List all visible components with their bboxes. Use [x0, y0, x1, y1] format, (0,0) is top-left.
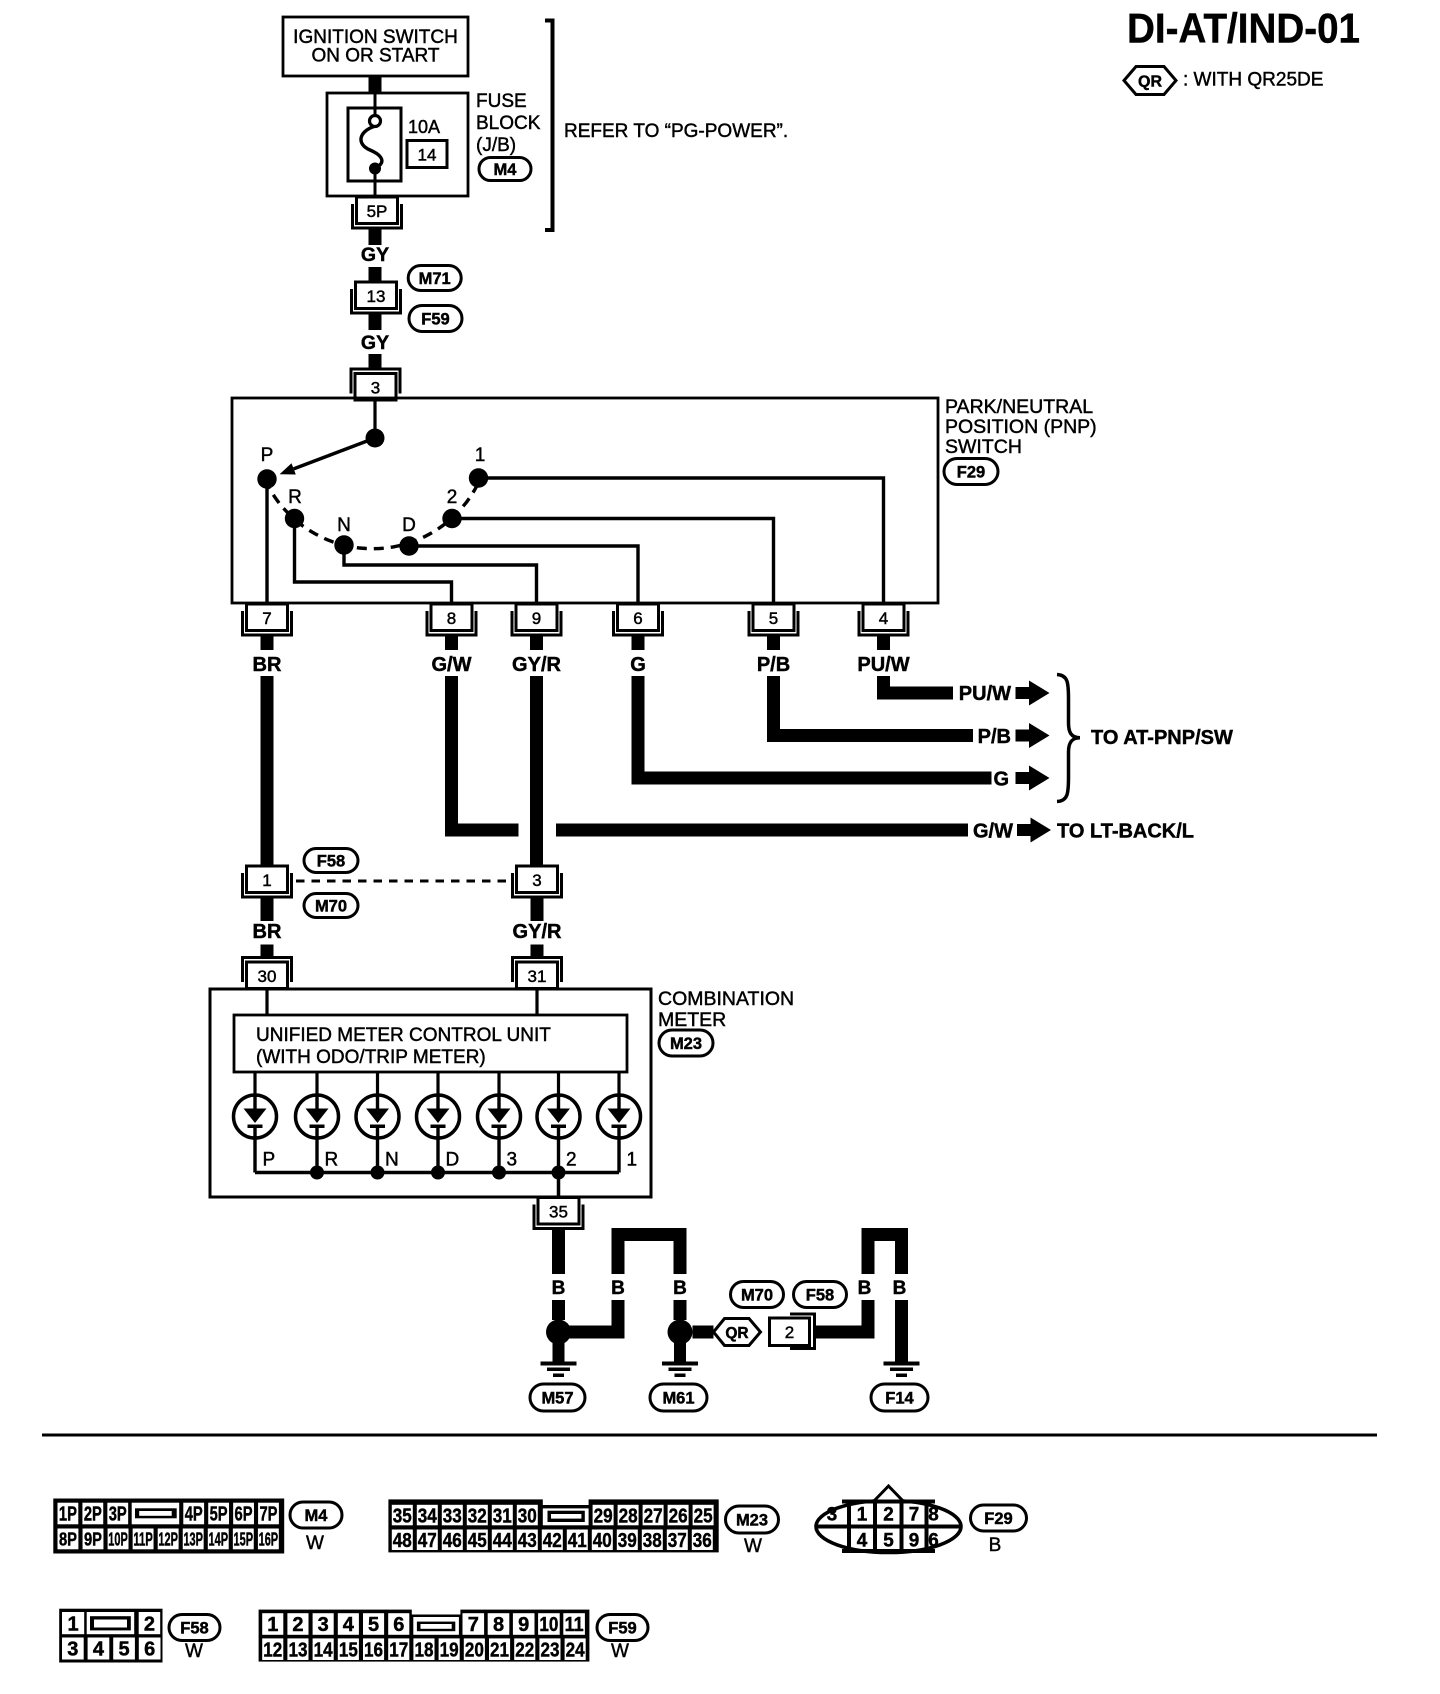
- svg-text:P: P: [261, 445, 274, 466]
- label PU/W branch: [959, 683, 1011, 705]
- wire color label PU/W: [857, 654, 909, 676]
- wire color GY upper: [361, 244, 389, 266]
- svg-text:17: 17: [389, 1639, 408, 1661]
- svg-text:8: 8: [493, 1614, 504, 1636]
- color B for F29: [989, 1535, 1002, 1556]
- svg-text:4: 4: [93, 1639, 105, 1661]
- svg-text:F58: F58: [180, 1619, 208, 1637]
- svg-text:W: W: [744, 1536, 762, 1557]
- combination meter pin 31: [513, 958, 562, 989]
- svg-text:13: 13: [288, 1639, 307, 1661]
- svg-text:1: 1: [627, 1150, 638, 1171]
- svg-text:18: 18: [414, 1639, 433, 1661]
- svg-text:35: 35: [549, 1203, 568, 1222]
- svg-text:9: 9: [909, 1530, 920, 1552]
- svg-text:: WITH QR25DE: : WITH QR25DE: [1183, 70, 1323, 91]
- svg-text:6P: 6P: [235, 1504, 253, 1526]
- wire P/B vertical and branch: [767, 676, 973, 742]
- svg-text:1: 1: [68, 1613, 79, 1635]
- ground node M57 junction: [546, 1320, 571, 1345]
- ground loop 1 left leg lower: [612, 1300, 625, 1339]
- svg-text:GY/R: GY/R: [513, 921, 562, 943]
- svg-text:FUSE: FUSE: [476, 91, 527, 112]
- separator line: [42, 1434, 1377, 1437]
- bus junction at 2: [552, 1166, 566, 1180]
- svg-text:6: 6: [928, 1530, 939, 1552]
- svg-text:M71: M71: [419, 270, 451, 288]
- wire pin30 to control unit: [265, 988, 268, 1015]
- oval F58 bottom: [169, 1615, 220, 1641]
- svg-text:M57: M57: [541, 1389, 573, 1407]
- svg-text:30: 30: [258, 967, 277, 986]
- svg-text:19: 19: [440, 1639, 459, 1661]
- svg-text:UNIFIED METER CONTROL UNIT: UNIFIED METER CONTROL UNIT: [256, 1025, 551, 1046]
- contact P: [257, 445, 276, 489]
- ground node M61 junction: [668, 1320, 693, 1345]
- svg-text:P: P: [263, 1150, 276, 1171]
- svg-text:W: W: [185, 1641, 203, 1662]
- svg-text:F58: F58: [317, 852, 345, 870]
- svg-text:4: 4: [343, 1614, 355, 1636]
- svg-text:6: 6: [144, 1639, 155, 1661]
- bracket for fuse block note: [545, 21, 553, 231]
- ground loop 2 left leg lower: [862, 1300, 875, 1339]
- oval M23: [659, 1030, 713, 1056]
- svg-text:1P: 1P: [59, 1504, 77, 1526]
- wire color B label 1: [552, 1278, 566, 1299]
- svg-text:F14: F14: [885, 1389, 914, 1407]
- dashed arc of selector positions: [265, 479, 480, 549]
- svg-text:12P: 12P: [158, 1529, 178, 1550]
- ground symbol M57: [541, 1343, 577, 1377]
- svg-text:34: 34: [418, 1505, 438, 1527]
- ground loop 2 right leg upper: [895, 1241, 908, 1274]
- svg-text:15P: 15P: [234, 1529, 254, 1550]
- wire from connector 3 to rotor: [373, 400, 376, 438]
- color W for M4: [306, 1533, 324, 1554]
- ground loop 2 left leg upper: [862, 1241, 875, 1274]
- arrow G: [1016, 766, 1050, 791]
- indicator LED P: [234, 1072, 277, 1173]
- svg-text:M70: M70: [741, 1286, 773, 1304]
- svg-text:W: W: [611, 1641, 629, 1662]
- connector 2 (M70/F58 ground junction): [770, 1314, 815, 1349]
- contact 1: [469, 445, 488, 488]
- wire color B label 4: [858, 1278, 872, 1299]
- svg-text:GY/R: GY/R: [512, 654, 561, 676]
- wire below 5P: [369, 228, 382, 245]
- svg-text:23: 23: [540, 1639, 559, 1661]
- svg-text:2: 2: [292, 1614, 303, 1636]
- svg-text:G: G: [993, 769, 1009, 791]
- oval F29 bottom: [971, 1505, 1027, 1531]
- svg-text:13P: 13P: [183, 1529, 203, 1550]
- svg-text:27: 27: [644, 1505, 663, 1527]
- svg-text:F29: F29: [984, 1510, 1012, 1528]
- indicator LED 3: [478, 1072, 521, 1173]
- svg-text:4: 4: [857, 1530, 868, 1552]
- wire from ignition switch to fuse block: [369, 76, 382, 94]
- svg-text:38: 38: [643, 1530, 662, 1552]
- wire bus to pin 35: [557, 1173, 561, 1199]
- svg-text:GY: GY: [361, 332, 389, 354]
- svg-text:37: 37: [668, 1530, 687, 1552]
- contact R: [285, 487, 304, 528]
- dashed link between connectors 1 and 3: [296, 880, 511, 883]
- wire into connector 13: [369, 267, 382, 283]
- wire color label BR: [253, 654, 282, 676]
- svg-text:2: 2: [883, 1504, 894, 1526]
- ground loop 1 right leg lower: [674, 1300, 687, 1320]
- wire BR into pin 30: [261, 945, 274, 959]
- svg-text:42: 42: [543, 1530, 562, 1552]
- svg-text:39: 39: [618, 1530, 637, 1552]
- ground loop 1 top: [612, 1228, 687, 1241]
- svg-text:PU/W: PU/W: [857, 654, 909, 676]
- oval M4 bottom: [290, 1502, 342, 1528]
- arrow PU/W: [1016, 681, 1050, 706]
- svg-text:F58: F58: [806, 1286, 834, 1304]
- svg-text:BLOCK: BLOCK: [476, 113, 541, 134]
- svg-text:16: 16: [364, 1639, 383, 1661]
- svg-text:2P: 2P: [84, 1504, 102, 1526]
- svg-text:1: 1: [475, 445, 486, 466]
- svg-text:SWITCH: SWITCH: [945, 436, 1022, 458]
- label P/B branch: [978, 726, 1011, 748]
- rotor pivot node: [366, 429, 385, 448]
- svg-text:G: G: [630, 654, 646, 676]
- svg-text:M4: M4: [494, 161, 518, 179]
- wire BR vertical: [261, 676, 274, 866]
- label TO LT-BACK/L: [1057, 821, 1194, 843]
- color W for F58: [185, 1641, 203, 1662]
- oval F59: [409, 306, 462, 332]
- svg-text:D: D: [446, 1150, 460, 1171]
- svg-text:35: 35: [393, 1505, 412, 1527]
- svg-text:16P: 16P: [259, 1529, 279, 1550]
- unified meter control unit box: [234, 1015, 627, 1072]
- PNP switch pin 9: [512, 604, 561, 650]
- svg-text:9: 9: [518, 1614, 529, 1636]
- svg-text:POSITION (PNP): POSITION (PNP): [945, 416, 1097, 438]
- svg-text:R: R: [288, 487, 302, 508]
- svg-text:REFER TO “PG-POWER”.: REFER TO “PG-POWER”.: [564, 121, 788, 142]
- combination meter pin 35: [534, 1198, 583, 1242]
- wire M57 node to loop: [566, 1326, 625, 1339]
- svg-text:12: 12: [263, 1639, 282, 1661]
- PNP switch pin 5: [749, 604, 798, 650]
- svg-text:M23: M23: [670, 1035, 702, 1053]
- contact D: [399, 515, 418, 556]
- svg-text:14: 14: [418, 146, 437, 165]
- svg-text:3: 3: [532, 871, 541, 890]
- svg-text:TO AT-PNP/SW: TO AT-PNP/SW: [1091, 727, 1233, 749]
- wire color label P/B: [757, 654, 790, 676]
- wire into connector 3: [369, 354, 382, 369]
- brace TO AT-PNP/SW: [1057, 675, 1080, 802]
- ground loop 1 right leg upper: [674, 1241, 687, 1274]
- label G branch: [993, 769, 1009, 791]
- connector M4 oval: [479, 158, 531, 181]
- fuse 10A #14: [348, 94, 401, 196]
- bus junction at N: [371, 1166, 385, 1180]
- wire color GY lower: [361, 332, 389, 354]
- arrow P/B: [1016, 723, 1050, 748]
- fuse value 10A: [408, 117, 440, 137]
- svg-text:10A: 10A: [408, 117, 440, 137]
- svg-text:9P: 9P: [84, 1529, 102, 1550]
- oval M71: [408, 266, 461, 291]
- svg-text:G/W: G/W: [973, 821, 1013, 843]
- ignition switch power source box: [283, 17, 468, 76]
- svg-text:44: 44: [493, 1530, 513, 1552]
- oval M70 ground: [731, 1282, 784, 1308]
- wire GY/R below connector 3: [531, 897, 544, 921]
- svg-text:15: 15: [339, 1639, 358, 1661]
- wire BR below connector 1: [261, 897, 274, 921]
- svg-text:9: 9: [532, 609, 541, 628]
- svg-text:3: 3: [67, 1639, 78, 1661]
- svg-text:BR: BR: [253, 654, 282, 676]
- svg-text:BR: BR: [253, 921, 282, 943]
- label G/W branch: [973, 821, 1013, 843]
- svg-text:B: B: [858, 1278, 872, 1299]
- svg-text:1: 1: [857, 1504, 868, 1526]
- svg-text:36: 36: [693, 1530, 712, 1552]
- wire P to pin 7: [265, 479, 268, 602]
- wire B from pin 35: [552, 1240, 565, 1274]
- svg-text:10: 10: [539, 1614, 558, 1636]
- svg-text:GY: GY: [361, 244, 389, 266]
- svg-text:47: 47: [418, 1530, 437, 1552]
- svg-text:P/B: P/B: [978, 726, 1011, 748]
- PNP switch pin 6: [614, 604, 663, 650]
- svg-text:26: 26: [669, 1505, 688, 1527]
- svg-text:F59: F59: [608, 1619, 636, 1637]
- svg-text:3: 3: [507, 1150, 518, 1171]
- svg-text:32: 32: [468, 1505, 487, 1527]
- label COMBINATION METER: [658, 988, 794, 1031]
- svg-text:2: 2: [566, 1150, 577, 1171]
- svg-text:5: 5: [368, 1614, 379, 1636]
- svg-text:43: 43: [518, 1530, 537, 1552]
- PNP switch pin 8: [427, 604, 476, 650]
- indicator LED N: [356, 1072, 399, 1173]
- color W for M23: [744, 1536, 762, 1557]
- oval F59 bottom: [597, 1615, 648, 1641]
- combination meter box: [210, 989, 651, 1197]
- svg-text:D: D: [402, 515, 416, 536]
- connector face F29: [816, 1486, 961, 1553]
- connector face F59: [259, 1608, 590, 1662]
- label FUSE BLOCK (J/B): [476, 91, 541, 156]
- svg-text:B: B: [893, 1278, 907, 1299]
- svg-text:4P: 4P: [185, 1504, 203, 1526]
- indicator LED D: [417, 1072, 460, 1173]
- svg-text:28: 28: [619, 1505, 638, 1527]
- wire 1 to pin 4: [479, 478, 884, 602]
- svg-text:29: 29: [594, 1505, 613, 1527]
- svg-text:40: 40: [593, 1530, 612, 1552]
- arrow G/W: [1017, 818, 1051, 843]
- PNP switch pin 7: [243, 604, 292, 650]
- wire G vertical and branch: [632, 676, 992, 785]
- LED common bus: [255, 1171, 619, 1175]
- svg-text:5P: 5P: [210, 1504, 228, 1526]
- svg-text:3P: 3P: [109, 1504, 127, 1526]
- svg-text:21: 21: [490, 1639, 509, 1661]
- wire N to pin 9: [344, 545, 537, 602]
- wire pin31 to control unit: [535, 988, 538, 1015]
- oval M61: [650, 1384, 707, 1411]
- fuse number 14 box: [407, 141, 447, 168]
- svg-text:QR: QR: [1138, 74, 1162, 91]
- svg-text:N: N: [337, 515, 351, 536]
- svg-text:48: 48: [393, 1530, 412, 1552]
- svg-text:11: 11: [565, 1614, 584, 1636]
- svg-text:2: 2: [447, 487, 458, 508]
- connector face M4: [53, 1499, 284, 1554]
- wire R to pin 8: [295, 519, 452, 603]
- svg-text:P/B: P/B: [757, 654, 790, 676]
- wire color B label 3: [673, 1278, 687, 1299]
- svg-text:PU/W: PU/W: [959, 683, 1011, 705]
- ground symbol M61: [662, 1343, 698, 1377]
- contact 2: [442, 487, 461, 528]
- wire GY/R vertical: [530, 676, 543, 866]
- svg-text:6: 6: [633, 609, 642, 628]
- oval F14: [871, 1384, 928, 1411]
- svg-text:G/W: G/W: [432, 654, 472, 676]
- svg-text:13: 13: [367, 287, 386, 306]
- label TO AT-PNP/SW: [1091, 727, 1233, 749]
- svg-text:B: B: [552, 1278, 566, 1299]
- svg-text:M61: M61: [662, 1389, 694, 1407]
- svg-text:ON OR START: ON OR START: [311, 46, 439, 67]
- svg-text:24: 24: [566, 1639, 586, 1661]
- svg-text:1: 1: [267, 1614, 278, 1636]
- svg-text:3: 3: [827, 1504, 838, 1526]
- bus junction at R: [310, 1166, 324, 1180]
- wire connector 2 to loop 2: [816, 1326, 875, 1339]
- svg-text:25: 25: [694, 1505, 713, 1527]
- park/neutral position switch box: [232, 398, 938, 603]
- svg-text:DI-AT/IND-01: DI-AT/IND-01: [1127, 5, 1360, 52]
- PNP switch pin 4: [859, 604, 908, 650]
- oval M57: [530, 1384, 585, 1411]
- wire color GY/R label 2: [513, 921, 562, 943]
- svg-text:1: 1: [262, 871, 271, 890]
- connector joint 13 (M71/F59): [352, 282, 401, 313]
- wire color B label 2: [611, 1278, 625, 1299]
- svg-text:PARK/NEUTRAL: PARK/NEUTRAL: [945, 396, 1093, 418]
- connector 3 (M70/F58 junction): [513, 866, 562, 897]
- note REFER TO PG-POWER: [564, 121, 788, 142]
- svg-text:2: 2: [785, 1323, 794, 1342]
- svg-text:6: 6: [393, 1614, 404, 1636]
- ground loop 2 right leg lower: [895, 1300, 908, 1362]
- svg-text:31: 31: [528, 967, 547, 986]
- svg-text:W: W: [306, 1533, 324, 1554]
- svg-text:20: 20: [465, 1639, 484, 1661]
- connector 3 on PNP switch: [351, 369, 400, 400]
- ground loop 1 left leg upper: [612, 1241, 625, 1274]
- svg-text:33: 33: [443, 1505, 462, 1527]
- ground loop 2 top: [862, 1228, 909, 1241]
- oval F58 ground: [794, 1282, 847, 1308]
- svg-text:(J/B): (J/B): [476, 135, 516, 156]
- connector 1 (M70/F58 junction): [243, 866, 292, 897]
- svg-text:TO LT-BACK/L: TO LT-BACK/L: [1057, 821, 1194, 843]
- bus junction at 3: [492, 1166, 506, 1180]
- svg-text:F29: F29: [957, 463, 985, 481]
- svg-text:10P: 10P: [108, 1529, 128, 1550]
- wire D to pin 6: [409, 546, 638, 602]
- svg-text:7: 7: [262, 609, 271, 628]
- wire 2 to pin 5: [452, 519, 774, 603]
- svg-text:R: R: [325, 1150, 339, 1171]
- svg-text:5: 5: [883, 1530, 894, 1552]
- svg-text:8: 8: [447, 609, 456, 628]
- svg-text:B: B: [673, 1278, 687, 1299]
- svg-text:22: 22: [515, 1639, 534, 1661]
- diagram title DI-AT/IND-01: [1127, 5, 1360, 52]
- oval F29: [944, 459, 998, 485]
- wire M61 to QR connector: [693, 1326, 714, 1339]
- svg-text:7: 7: [909, 1504, 920, 1526]
- wire GY/R into pin 31: [531, 945, 544, 959]
- svg-text:B: B: [989, 1535, 1002, 1556]
- svg-text:COMBINATION: COMBINATION: [658, 988, 794, 1010]
- bus junction at D: [431, 1166, 445, 1180]
- svg-text:5: 5: [118, 1639, 129, 1661]
- svg-text:14P: 14P: [209, 1529, 229, 1550]
- svg-text:7P: 7P: [259, 1504, 277, 1526]
- connector face M23: [388, 1497, 718, 1552]
- wire color label G/W: [432, 654, 472, 676]
- svg-text:5: 5: [769, 609, 778, 628]
- svg-text:8P: 8P: [59, 1529, 77, 1550]
- svg-text:M4: M4: [305, 1507, 329, 1525]
- svg-text:14: 14: [314, 1639, 334, 1661]
- contact N: [334, 515, 353, 555]
- svg-text:5P: 5P: [367, 202, 388, 221]
- svg-text:(WITH ODO/TRIP METER): (WITH ODO/TRIP METER): [256, 1047, 486, 1068]
- svg-text:30: 30: [518, 1505, 537, 1527]
- svg-text:B: B: [611, 1278, 625, 1299]
- ground symbol F14: [884, 1362, 920, 1378]
- wire color label G: [630, 654, 646, 676]
- QR option hexagon: [714, 1319, 761, 1346]
- svg-text:7: 7: [468, 1614, 479, 1636]
- indicator LED 2: [537, 1072, 580, 1173]
- svg-text:3: 3: [371, 379, 380, 398]
- QR legend hexagon: [1124, 67, 1176, 95]
- svg-text:41: 41: [568, 1530, 587, 1552]
- rotor arrow to P contact: [280, 438, 375, 475]
- svg-text:M70: M70: [315, 897, 347, 915]
- wire color label GY/R: [512, 654, 561, 676]
- combination meter pin 30: [243, 958, 292, 989]
- oval M70 mid: [304, 894, 358, 918]
- svg-text:11P: 11P: [133, 1529, 153, 1550]
- svg-text:M23: M23: [736, 1511, 768, 1529]
- svg-text:4: 4: [879, 609, 888, 628]
- wire color B label 5: [893, 1278, 907, 1299]
- svg-text:45: 45: [468, 1530, 487, 1552]
- svg-text:31: 31: [493, 1505, 512, 1527]
- wire B to ground node M57: [552, 1300, 565, 1320]
